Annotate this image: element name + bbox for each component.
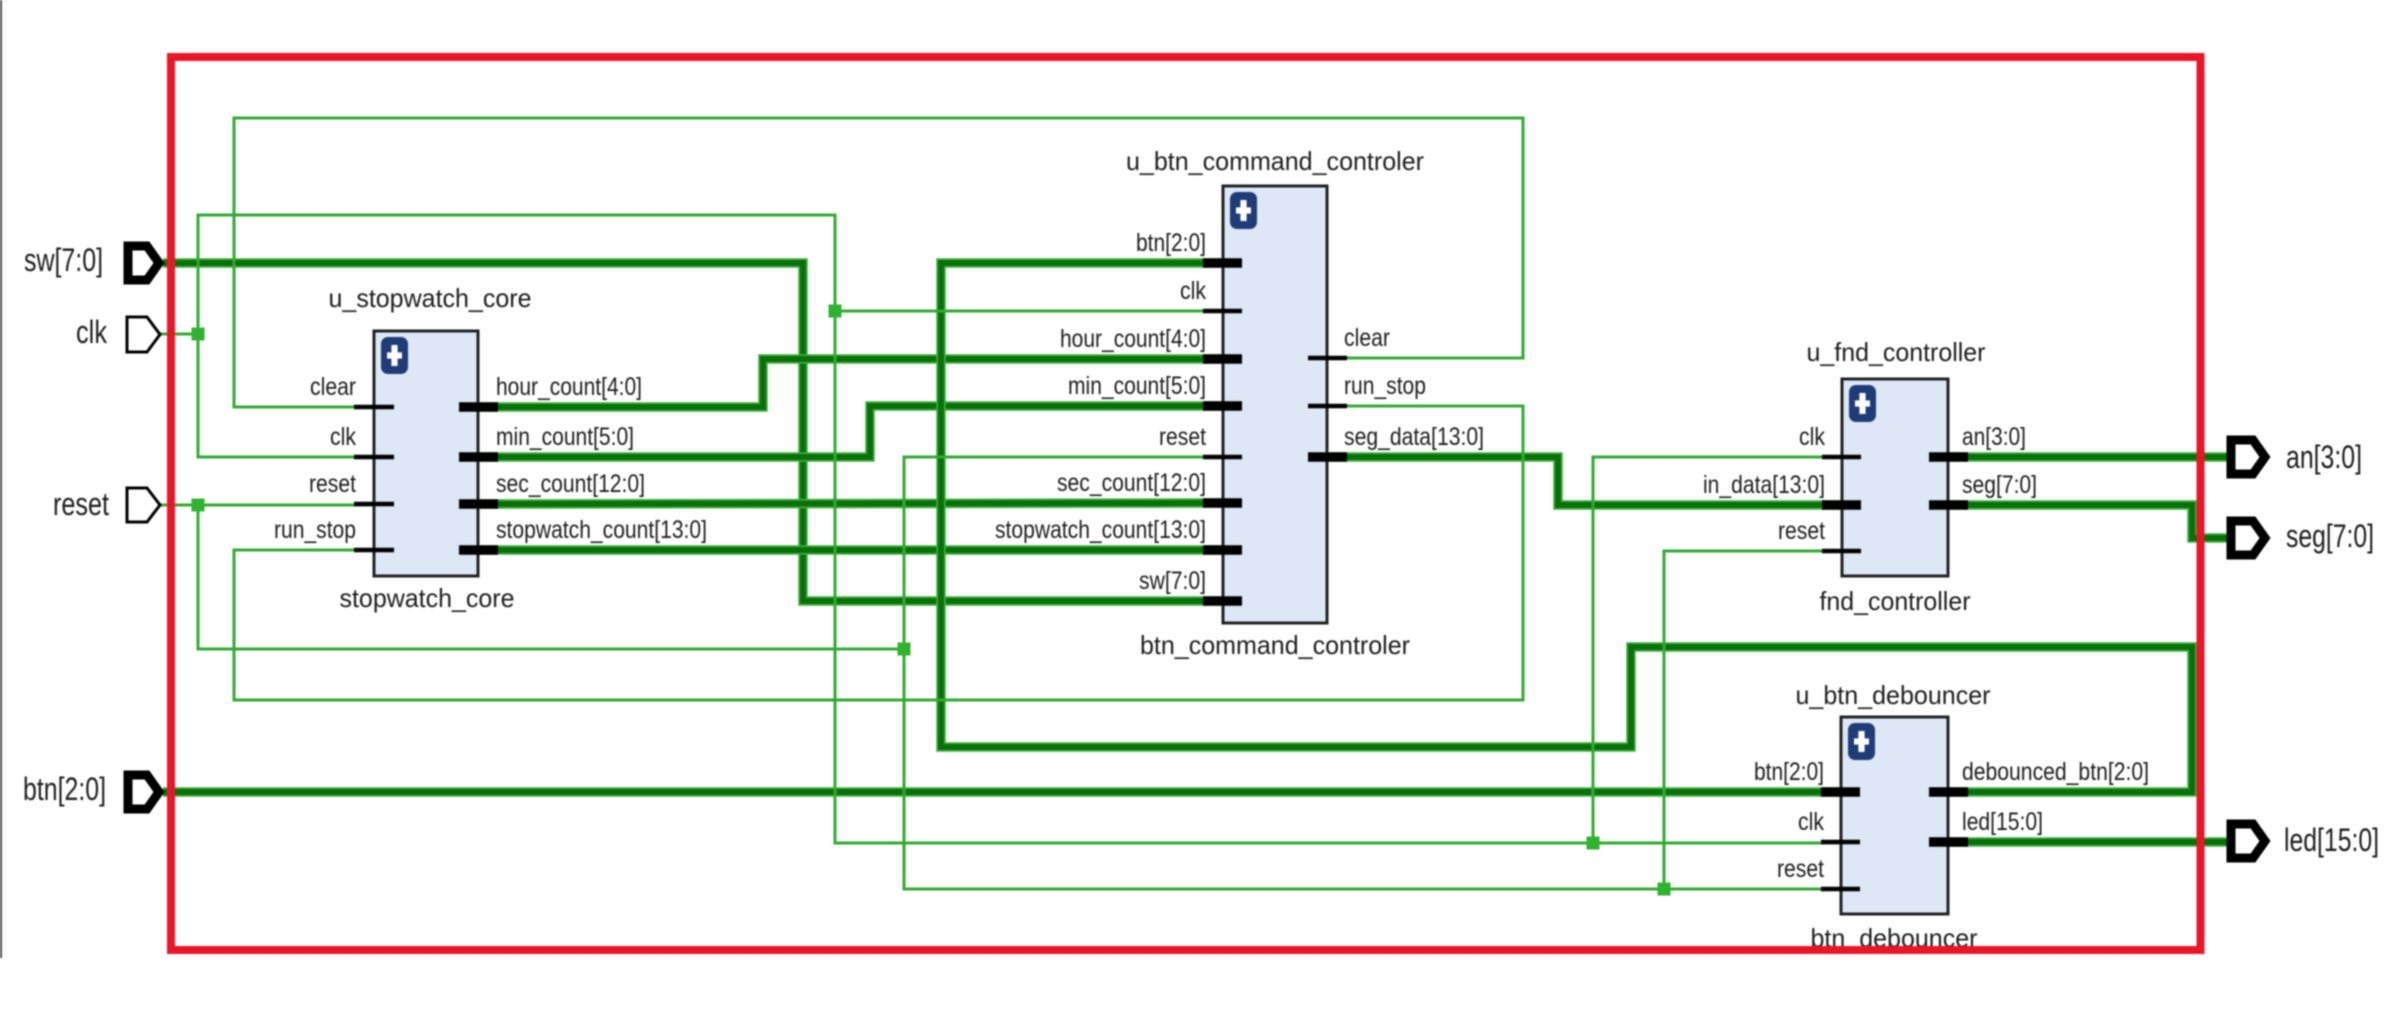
input port clk bbox=[127, 317, 160, 352]
pin labels u_btn_debouncer right bbox=[1962, 758, 2149, 836]
svg-text:seg[7:0]: seg[7:0] bbox=[2286, 518, 2374, 554]
pin stubs u_fnd_controller bbox=[1822, 457, 1968, 551]
svg-text:sec_count[12:0]: sec_count[12:0] bbox=[496, 470, 645, 498]
output port led[15:0] bbox=[2231, 824, 2265, 858]
input port sw[7:0] bbox=[128, 246, 159, 280]
svg-text:u_btn_command_controler: u_btn_command_controler bbox=[1126, 146, 1424, 176]
wire net run_stop bbox=[234, 406, 1523, 700]
pin stubs u_btn_debouncer bbox=[1821, 792, 1968, 889]
svg-text:an[3:0]: an[3:0] bbox=[1962, 423, 2026, 451]
wire net clk bbox=[160, 215, 1842, 843]
pin labels u_stopwatch_core left bbox=[274, 373, 356, 544]
svg-text:reset: reset bbox=[1159, 423, 1206, 451]
svg-text:clk: clk bbox=[1180, 277, 1206, 305]
svg-text:led[15:0]: led[15:0] bbox=[2284, 822, 2379, 858]
svg-text:debounced_btn[2:0]: debounced_btn[2:0] bbox=[1962, 758, 2149, 786]
svg-text:reset: reset bbox=[309, 470, 356, 498]
junction reset port bbox=[192, 499, 205, 512]
bus sw[7:0] bbox=[163, 263, 1223, 601]
svg-text:sw[7:0]: sw[7:0] bbox=[1139, 567, 1206, 595]
svg-text:clk: clk bbox=[330, 423, 356, 451]
svg-text:u_btn_debouncer: u_btn_debouncer bbox=[1796, 680, 1991, 710]
bus btn[2:0] bbox=[163, 787, 1841, 797]
svg-text:sec_count[12:0]: sec_count[12:0] bbox=[1057, 469, 1206, 497]
svg-text:seg_data[13:0]: seg_data[13:0] bbox=[1344, 423, 1484, 451]
svg-text:reset: reset bbox=[53, 486, 109, 522]
screen left edge line bbox=[0, 0, 2, 958]
pin labels u_btn_debouncer left bbox=[1754, 758, 1824, 883]
pin stubs u_stopwatch_core bbox=[354, 407, 498, 550]
bus min_count[5:0] bbox=[478, 406, 1223, 457]
bus led[15:0] bbox=[1948, 837, 2232, 847]
pin labels u_btn_command_controler left bbox=[995, 229, 1206, 595]
input port reset bbox=[127, 488, 160, 522]
svg-text:btn_command_controler: btn_command_controler bbox=[1140, 630, 1410, 660]
svg-text:fnd_controller: fnd_controller bbox=[1820, 586, 1971, 616]
svg-text:clk: clk bbox=[76, 314, 108, 350]
input port btn[2:0] bbox=[128, 775, 159, 809]
pin labels u_fnd_controller left bbox=[1703, 423, 1825, 545]
svg-text:an[3:0]: an[3:0] bbox=[2286, 439, 2362, 475]
svg-text:clk: clk bbox=[1799, 423, 1825, 451]
svg-text:clk: clk bbox=[1798, 808, 1824, 836]
bus debounced_btn[2:0] bbox=[941, 263, 2192, 792]
svg-text:btn[2:0]: btn[2:0] bbox=[1136, 229, 1206, 257]
svg-text:u_fnd_controller: u_fnd_controller bbox=[1807, 337, 1986, 367]
module u_stopwatch_core bbox=[374, 331, 478, 576]
junction clk bottom bbox=[1587, 837, 1600, 850]
svg-text:u_stopwatch_core: u_stopwatch_core bbox=[329, 283, 532, 313]
pin labels u_btn_command_controler right bbox=[1344, 324, 1484, 451]
wire net reset bbox=[160, 457, 1842, 889]
junction clk top bbox=[829, 305, 842, 318]
svg-text:btn[2:0]: btn[2:0] bbox=[1754, 758, 1824, 786]
svg-text:led[15:0]: led[15:0] bbox=[1962, 808, 2043, 836]
junction reset bottom bbox=[1658, 883, 1671, 896]
junction reset mid bbox=[898, 643, 911, 656]
bus an[3:0] bbox=[1948, 452, 2232, 462]
bus sec_count[12:0] bbox=[478, 503, 1223, 504]
pin labels u_stopwatch_core right bbox=[496, 373, 707, 544]
bus seg[7:0] bbox=[1948, 505, 2232, 538]
pin labels u_fnd_controller right bbox=[1962, 423, 2037, 499]
svg-text:stopwatch_count[13:0]: stopwatch_count[13:0] bbox=[496, 516, 707, 544]
svg-text:stopwatch_core: stopwatch_core bbox=[340, 583, 515, 613]
red boundary box bbox=[171, 57, 2201, 950]
svg-text:btn[2:0]: btn[2:0] bbox=[23, 771, 106, 807]
bus stopwatch_count[13:0] bbox=[478, 545, 1223, 555]
bus hour_count[4:0] bbox=[478, 359, 1223, 407]
svg-text:min_count[5:0]: min_count[5:0] bbox=[496, 423, 634, 451]
svg-text:reset: reset bbox=[1777, 855, 1824, 883]
svg-text:in_data[13:0]: in_data[13:0] bbox=[1703, 471, 1825, 499]
svg-text:sw[7:0]: sw[7:0] bbox=[24, 242, 103, 278]
output port an[3:0] bbox=[2231, 440, 2265, 474]
svg-text:hour_count[4:0]: hour_count[4:0] bbox=[1060, 325, 1206, 353]
svg-text:stopwatch_count[13:0]: stopwatch_count[13:0] bbox=[995, 516, 1206, 544]
svg-text:seg[7:0]: seg[7:0] bbox=[1962, 471, 2037, 499]
output port seg[7:0] bbox=[2231, 521, 2265, 555]
module u_fnd_controller bbox=[1842, 379, 1948, 576]
module u_btn_debouncer bbox=[1841, 717, 1948, 914]
svg-text:run_stop: run_stop bbox=[1344, 372, 1426, 400]
svg-text:run_stop: run_stop bbox=[274, 516, 356, 544]
bus seg_data[13:0] to in_data bbox=[1327, 457, 1842, 505]
module u_btn_command_controler bbox=[1223, 186, 1327, 623]
svg-text:reset: reset bbox=[1778, 517, 1825, 545]
svg-text:clear: clear bbox=[1344, 324, 1390, 352]
wire net clear bbox=[234, 118, 1523, 407]
pin stubs u_btn_command_controler bbox=[1203, 263, 1347, 601]
junction clk port bbox=[192, 328, 205, 341]
svg-text:min_count[5:0]: min_count[5:0] bbox=[1068, 372, 1206, 400]
svg-text:clear: clear bbox=[310, 373, 356, 401]
svg-text:hour_count[4:0]: hour_count[4:0] bbox=[496, 373, 642, 401]
